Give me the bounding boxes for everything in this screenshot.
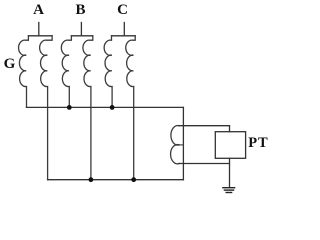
wire: PT primary bottom lead (179, 163, 230, 165)
junction dot upper bus / C1 (110, 105, 115, 110)
junction dot lower bus / C2 (131, 177, 136, 182)
winding G-A2 (right coil of phase A) (40, 36, 52, 180)
wire: stub into PT box top (229, 126, 231, 132)
node B terminal stub (80, 23, 82, 36)
winding G-C2 (right coil of phase C) (126, 36, 135, 180)
ground (223, 188, 235, 193)
node C terminal stub (123, 23, 125, 36)
wire: PT primary top lead (179, 125, 230, 127)
winding G-B1 (left coil of phase B) (61, 36, 71, 108)
wire: upper neutral bus (27, 106, 184, 108)
wire: phase B top bar (71, 35, 92, 37)
label PT (248, 136, 269, 151)
wire: phase A top bar (28, 35, 52, 37)
label G (4, 57, 16, 72)
wire: ground stem (229, 158, 231, 187)
junction dot upper bus / B1 (67, 105, 72, 110)
node A terminal stub (38, 23, 40, 36)
wire: phase C top bar (112, 35, 136, 37)
winding G-B2 (right coil of phase B) (83, 36, 93, 180)
PT box (215, 132, 245, 159)
junction dot lower bus / B2 (89, 177, 94, 182)
wire: right vertical between buses (182, 107, 184, 179)
wire: lower neutral bus (48, 179, 184, 181)
PT primary winding (two bumps on right vertical) (171, 125, 180, 163)
label A (28, 3, 49, 18)
label C (112, 3, 133, 18)
label B (70, 3, 91, 18)
winding G-A1 (left coil of phase A) (19, 36, 29, 108)
winding G-C1 (left coil of phase C) (104, 36, 112, 108)
wire: tick at PT winding cusp (180, 144, 184, 146)
